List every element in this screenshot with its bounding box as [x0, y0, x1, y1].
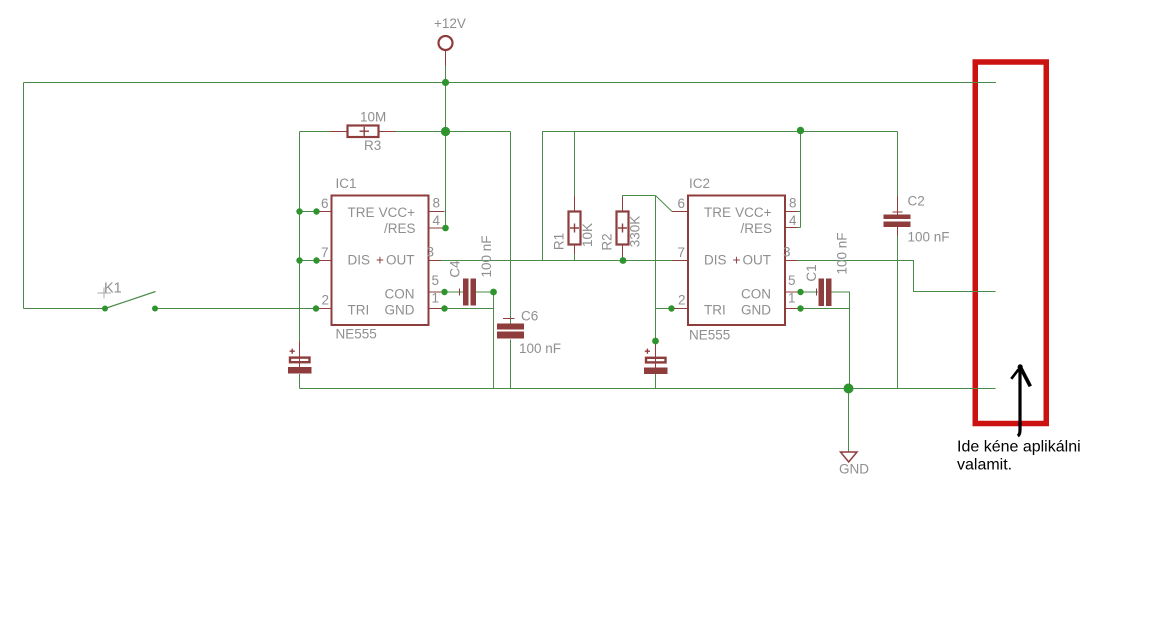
- svg-text:CON: CON: [741, 287, 771, 302]
- svg-text:4: 4: [433, 213, 441, 228]
- svg-text:C1: C1: [804, 264, 819, 281]
- svg-text:valamit.: valamit.: [957, 457, 1012, 474]
- svg-text:+12V: +12V: [434, 16, 466, 31]
- svg-text:IC1: IC1: [336, 176, 357, 191]
- svg-text:DIS: DIS: [348, 253, 371, 268]
- svg-text:2: 2: [321, 293, 329, 308]
- svg-text:TRE: TRE: [704, 205, 731, 220]
- svg-text:C6: C6: [521, 309, 538, 324]
- svg-text:+: +: [376, 253, 384, 268]
- svg-text:Ide kéne aplikálni: Ide kéne aplikálni: [957, 439, 1081, 456]
- svg-text:8: 8: [433, 196, 441, 211]
- svg-text:10M: 10M: [360, 110, 386, 125]
- svg-text:TRI: TRI: [348, 303, 370, 318]
- svg-text:100 nF: 100 nF: [835, 232, 850, 274]
- svg-text:330K: 330K: [628, 216, 643, 248]
- svg-text:GND: GND: [741, 303, 771, 318]
- svg-text:CON: CON: [385, 287, 415, 302]
- svg-text:IC2: IC2: [689, 176, 710, 191]
- svg-text:GND: GND: [839, 462, 869, 477]
- svg-text:1: 1: [432, 291, 440, 306]
- svg-text:R3: R3: [364, 138, 381, 153]
- svg-text:R1: R1: [552, 233, 567, 250]
- svg-text:OUT: OUT: [743, 253, 772, 268]
- svg-text:6: 6: [321, 196, 329, 211]
- svg-text:NE555: NE555: [689, 328, 730, 343]
- svg-text:GND: GND: [385, 303, 415, 318]
- svg-text:5: 5: [432, 273, 440, 288]
- svg-text:/RES: /RES: [740, 221, 772, 236]
- svg-text:DIS: DIS: [704, 253, 727, 268]
- svg-text:TRI: TRI: [704, 303, 726, 318]
- svg-text:TRE: TRE: [348, 205, 375, 220]
- svg-text:4: 4: [789, 213, 797, 228]
- svg-text:5: 5: [788, 273, 796, 288]
- svg-text:8: 8: [789, 196, 797, 211]
- svg-text:C4: C4: [448, 260, 463, 278]
- svg-text:7: 7: [321, 245, 329, 260]
- svg-text:3: 3: [427, 245, 435, 260]
- svg-text:6: 6: [677, 196, 685, 211]
- svg-text:R2: R2: [600, 233, 615, 250]
- svg-text:100 nF: 100 nF: [908, 230, 950, 245]
- svg-text:/RES: /RES: [384, 221, 416, 236]
- svg-text:NE555: NE555: [336, 327, 377, 342]
- svg-text:2: 2: [678, 293, 686, 308]
- svg-text:VCC+: VCC+: [379, 205, 416, 220]
- svg-text:C2: C2: [908, 194, 925, 209]
- svg-text:VCC+: VCC+: [735, 205, 772, 220]
- svg-text:10K: 10K: [580, 223, 595, 247]
- svg-text:K1: K1: [104, 281, 122, 297]
- svg-text:100 nF: 100 nF: [519, 341, 561, 356]
- svg-text:7: 7: [677, 245, 685, 260]
- svg-text:3: 3: [783, 245, 791, 260]
- svg-text:1: 1: [788, 291, 796, 306]
- svg-text:100 nF: 100 nF: [479, 235, 494, 277]
- svg-text:OUT: OUT: [386, 253, 415, 268]
- svg-text:+: +: [733, 253, 741, 268]
